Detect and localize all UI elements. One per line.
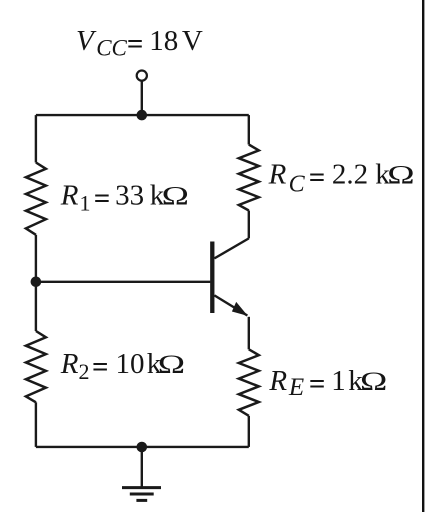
svg-text:R: R (60, 348, 79, 380)
label RE = 1 kOhm (268, 365, 387, 401)
transistor Q1 base bar (210, 242, 214, 314)
junction dot bottom (ground node) (137, 442, 148, 453)
label R2 = 10 kOhm (60, 348, 185, 384)
terminal Vcc (open circle) (137, 71, 147, 81)
svg-text:Ω: Ω (158, 350, 185, 379)
svg-text:=: = (309, 162, 326, 194)
wire R2 to bottom rail (35, 402, 37, 447)
node A junction dot (base node) (31, 277, 42, 288)
svg-text:18: 18 (149, 25, 178, 57)
label Vcc = 18 V (76, 25, 203, 61)
svg-text:=: = (309, 368, 326, 400)
svg-text:Ω: Ω (387, 161, 414, 190)
transistor Q1 emitter lead (214, 295, 247, 315)
wire RC to collector (248, 211, 250, 239)
wire top rail (36, 114, 249, 116)
wire left rail upper (Vcc to R1) (35, 115, 37, 162)
wire RE to bottom rail (248, 416, 250, 447)
transistor Q1 collector lead (214, 238, 248, 258)
svg-text:33: 33 (115, 180, 144, 212)
svg-text:V: V (182, 25, 203, 57)
wire base (node A to transistor) (36, 281, 211, 283)
svg-text:Ω: Ω (360, 367, 387, 396)
wire node A to R2 (35, 282, 37, 331)
svg-text:R: R (268, 365, 287, 397)
ground bar 1 (122, 486, 161, 489)
resistor R2 (26, 331, 46, 402)
svg-text:R: R (268, 159, 287, 191)
svg-text:2.2: 2.2 (332, 159, 368, 191)
ground (122, 488, 161, 501)
wire right rail upper (top to RC) (248, 115, 250, 144)
svg-text:=: = (92, 351, 109, 383)
label R1 = 33 kOhm (60, 180, 189, 216)
svg-text:E: E (288, 374, 304, 401)
wire bottom rail (36, 446, 249, 448)
ground bar 2 (130, 493, 154, 496)
svg-text:10: 10 (116, 348, 145, 380)
wire emitter to RE (248, 317, 250, 350)
svg-text:C: C (289, 172, 306, 198)
wire ground stub (141, 447, 143, 487)
page border line right (422, 0, 424, 512)
svg-text:V: V (76, 25, 97, 57)
resistor R1 (26, 163, 46, 235)
svg-text:Ω: Ω (162, 182, 189, 211)
resistor RE (239, 349, 259, 416)
resistor RC (239, 145, 259, 211)
ground bar 3 (136, 499, 147, 502)
svg-text:1: 1 (331, 365, 346, 397)
transistor Q1 (212, 238, 249, 316)
svg-text:2: 2 (79, 359, 90, 384)
transistor Q1 emitter arrowhead (232, 302, 248, 316)
junction dot top (Vcc node) (137, 110, 148, 121)
wire R1 to node A (35, 235, 37, 282)
svg-text:R: R (60, 180, 79, 212)
svg-text:=: = (127, 28, 144, 60)
svg-text:=: = (94, 183, 111, 215)
wire Vcc stub (141, 81, 143, 115)
label RC = 2.2 kOhm (268, 159, 415, 198)
svg-text:CC: CC (96, 36, 127, 61)
svg-text:1: 1 (80, 191, 91, 216)
